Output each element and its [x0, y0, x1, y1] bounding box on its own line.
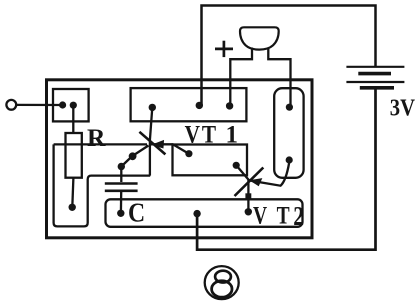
pad strip middle (emitter strip)	[173, 145, 248, 176]
node VT2 collector pad	[286, 156, 293, 163]
node speaker left pad	[226, 102, 233, 109]
wire input to pad	[16, 104, 62, 106]
wire top supply from board to battery	[202, 6, 376, 107]
capacitor C bottom lead	[120, 192, 123, 213]
C label	[128, 197, 145, 228]
speaker BL bowl	[240, 27, 279, 49]
wire VT1 to capacitor	[121, 146, 148, 167]
node R bottom pad	[69, 204, 76, 211]
capacitor C top lead	[120, 167, 122, 183]
VT1 label	[185, 121, 238, 149]
node VT1-C junction a	[129, 152, 137, 160]
figure number 8 top lobe	[215, 271, 231, 283]
transistor VT1 emitter arrow	[151, 144, 189, 153]
wire inner U path	[54, 144, 151, 226]
node speaker right pad	[286, 104, 293, 111]
transistor VT2 collector lead	[249, 163, 290, 186]
wire R bottom lead	[72, 178, 73, 208]
svg-text:2: 2	[293, 202, 304, 232]
node VT1-C junction b	[118, 163, 125, 170]
input terminal	[6, 100, 16, 110]
R label	[87, 124, 106, 152]
transistor VT2 bar	[235, 168, 264, 197]
node VT1 emitter pad	[185, 150, 192, 157]
node VT2 emitter blob	[245, 193, 251, 200]
battery B1 plate long top	[346, 66, 404, 68]
node VT2 base pad	[233, 162, 240, 169]
node ground pad	[193, 210, 200, 217]
node VT2 emitter pad	[245, 208, 252, 215]
transistor VT1 bar	[139, 132, 165, 155]
speaker leads	[230, 48, 252, 107]
node VT1 collector pad	[149, 104, 156, 111]
pad square top-left	[53, 89, 89, 121]
svg-text:T: T	[202, 121, 217, 149]
resistor R body	[66, 133, 82, 178]
wire R top lead	[72, 105, 74, 133]
svg-text:R: R	[87, 124, 106, 152]
figure number 8 bottom lobe	[212, 281, 232, 297]
node C negative pad	[117, 210, 124, 217]
wire VT1 base run	[54, 143, 147, 145]
battery B1 plate long 2	[346, 81, 404, 83]
battery 3V label	[390, 94, 415, 121]
pad tall right	[274, 88, 303, 178]
plus polarity mark	[215, 41, 233, 57]
svg-text:T: T	[277, 201, 290, 229]
svg-text:V: V	[185, 121, 201, 149]
svg-text:3V: 3V	[390, 94, 415, 121]
capacitor C plate top	[105, 182, 138, 185]
pad strip top-middle	[131, 88, 247, 121]
wire battery negative return bottom	[197, 88, 375, 250]
pad strip bottom	[106, 199, 303, 227]
svg-text:C: C	[128, 197, 145, 228]
node R top pad	[70, 102, 77, 109]
node input pad	[59, 101, 66, 108]
transistor VT2 base lead	[236, 165, 249, 180]
transistor VT1 collector lead	[150, 107, 152, 175]
figure number circle	[205, 266, 239, 299]
svg-text:1: 1	[226, 122, 239, 149]
circuit board outline	[47, 80, 313, 238]
svg-text:V: V	[253, 201, 267, 229]
transistor VT2 emitter lead	[247, 180, 249, 212]
battery B1 plate short thick 2	[360, 86, 394, 90]
VT2 label	[253, 201, 304, 232]
battery B1 plate short thick 1	[358, 72, 391, 76]
capacitor C plate bottom	[105, 190, 138, 193]
node supply pad	[196, 102, 203, 109]
